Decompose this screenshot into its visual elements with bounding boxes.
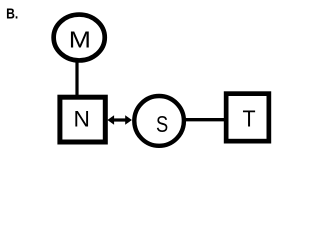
arrowhead right (points to S) xyxy=(125,115,132,125)
svg-text:T: T xyxy=(243,105,256,131)
arrowhead left (points to N) xyxy=(107,115,114,125)
svg-text:N: N xyxy=(74,107,90,132)
node N (square) xyxy=(60,97,105,142)
node M (circle) xyxy=(54,15,105,61)
wire S-T xyxy=(184,118,225,121)
node T (square) xyxy=(226,94,269,141)
svg-text:S: S xyxy=(156,111,168,137)
wire N-S double arrow shaft xyxy=(112,118,128,121)
node S (circle) xyxy=(134,96,184,146)
svg-text:B.: B. xyxy=(6,6,18,22)
wire M-N xyxy=(75,59,78,96)
svg-text:M: M xyxy=(69,26,91,52)
